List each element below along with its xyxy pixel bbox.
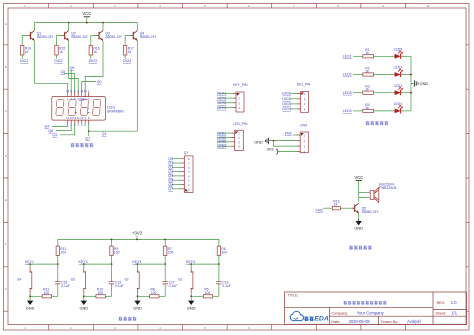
svg-text:2: 2 (304, 139, 306, 143)
svg-text:GND: GND (133, 305, 142, 310)
junction (111, 263, 113, 265)
wire FM2 to CN4 pin1 (293, 134, 297, 136)
title text (343, 301, 347, 304)
buzzer BUZZER1 (370, 183, 396, 203)
display digit 1 (56, 99, 64, 115)
wire LED2 to pin2 (217, 137, 231, 139)
svg-text:1: 1 (188, 187, 190, 191)
wire Q2 emitter to display pin4 (69, 41, 79, 93)
svg-text:EDA: EDA (314, 316, 328, 323)
resistor R15 (55, 45, 66, 55)
svg-text:Your Company: Your Company (357, 311, 385, 316)
svg-text:Q7: Q7 (168, 187, 173, 191)
svg-text:2: 2 (304, 97, 306, 101)
wire stub below junction (88, 131, 90, 136)
diode LED2 (394, 66, 403, 78)
header DIG_PIN pin dots (298, 93, 299, 110)
svg-text:5: 5 (204, 326, 206, 330)
svg-text:8: 8 (74, 89, 76, 93)
wire LED bus vertical (410, 56, 412, 111)
header LED_PIN pin dots (232, 133, 233, 147)
wire Q7 header row 2 (172, 162, 182, 164)
junction (273, 140, 275, 142)
switch S3 (71, 268, 86, 294)
wire cap to bottom (164, 284, 166, 296)
svg-text:LED2: LED2 (343, 73, 352, 77)
wire down to switch (83, 264, 85, 268)
svg-text:LED5: LED5 (394, 47, 403, 51)
power 3V3 at CN4 (267, 146, 278, 154)
svg-text:Date:: Date: (331, 320, 340, 324)
wire R15 to net (56, 55, 58, 59)
transistor Q1 (28, 31, 35, 41)
wire Q7 header row 5 (172, 175, 182, 177)
svg-text:4: 4 (77, 123, 79, 127)
svg-text:2: 2 (70, 326, 72, 330)
wire R9 to junction (111, 256, 113, 265)
wire DIG3 to pin3 (290, 103, 298, 105)
resistor R16 (89, 45, 100, 55)
wire DIG1 to pin1 (290, 92, 298, 94)
junction (86, 22, 88, 24)
header LED_PIN (233, 122, 248, 150)
wire emitter to GND (358, 213, 360, 219)
wire bus to GND (411, 83, 414, 85)
svg-text:4: 4 (304, 150, 306, 154)
ground GND S4 column (26, 301, 35, 311)
wire Q7 header row 4 (172, 171, 182, 173)
wire LED2 to bus (401, 74, 411, 76)
ground GND S1 column (187, 301, 196, 311)
junction (190, 263, 192, 265)
header CN4 pin dots (297, 135, 298, 153)
svg-text:LED4: LED4 (217, 145, 226, 149)
svg-text:2: 2 (188, 183, 190, 187)
wire R4 to LED4 (374, 110, 396, 112)
svg-text:100: 100 (97, 291, 103, 295)
wire LED1 to R1 (353, 55, 363, 57)
svg-text:Q5: Q5 (70, 66, 75, 70)
header CN4 (300, 124, 308, 154)
diode LED4 (394, 102, 403, 114)
svg-text:LED3: LED3 (394, 84, 403, 88)
wire junction down to cap (218, 264, 220, 282)
wire 3V3 stem (136, 236, 138, 240)
power +3V3 (132, 230, 143, 235)
transistor Q3 (96, 31, 103, 41)
svg-text:CN4: CN4 (300, 124, 307, 128)
svg-text:1.0: 1.0 (451, 300, 457, 305)
svg-text:7: 7 (88, 97, 90, 101)
header Q7 pin dots (182, 158, 183, 189)
svg-text:6: 6 (84, 97, 86, 101)
wire cap to bottom (111, 284, 113, 296)
wire R17 to net (124, 55, 126, 59)
svg-text:5: 5 (81, 123, 83, 127)
svg-text:C: C (5, 109, 7, 113)
svg-text:Company:: Company: (331, 312, 348, 316)
resistor R17 (123, 45, 134, 55)
svg-text:2: 2 (238, 97, 240, 101)
wire to buzzer pin1 (359, 192, 371, 194)
junction (102, 22, 104, 24)
svg-text:100: 100 (221, 251, 227, 255)
svg-text:8: 8 (188, 157, 190, 161)
svg-text:GND: GND (354, 226, 363, 231)
wire Q1 emitter to display pin1 (34, 41, 67, 93)
svg-text:LED4: LED4 (343, 109, 352, 113)
svg-text:10: 10 (427, 4, 430, 8)
header KEY_PIN pin dots (233, 93, 234, 108)
wire VCC stem (86, 17, 88, 23)
svg-text:DIG4: DIG4 (282, 107, 290, 111)
wire KEY1 to pin1 (219, 92, 233, 94)
resistor R6 (217, 246, 227, 255)
wire junction to CN4 pin3 (274, 141, 298, 147)
ground GND S3 column (79, 301, 88, 311)
power VCC top (82, 11, 91, 17)
svg-text:10: 10 (84, 89, 87, 93)
wire LED1 to pin1 (217, 132, 231, 134)
svg-text:REV:: REV: (437, 301, 445, 305)
svg-text:GND: GND (187, 305, 196, 310)
svg-text:3: 3 (114, 4, 116, 8)
svg-text:G: G (5, 287, 7, 291)
wire base Q2 (57, 36, 63, 46)
svg-text:TITLE:: TITLE: (288, 293, 299, 297)
svg-text:4: 4 (238, 145, 240, 149)
wire R2 to LED2 (374, 74, 396, 76)
junction (410, 92, 412, 94)
svg-text:1: 1 (24, 4, 26, 8)
display top pins (68, 92, 89, 96)
junction (164, 263, 166, 265)
header Q7 pin stubs (182, 159, 185, 189)
transistor Q4 (131, 31, 138, 41)
svg-text:1: 1 (304, 92, 306, 96)
svg-text:8: 8 (87, 107, 89, 111)
display bottom pin names (67, 123, 90, 127)
svg-text:1k: 1k (128, 50, 132, 54)
svg-text:100: 100 (205, 291, 211, 295)
svg-text:F: F (5, 242, 7, 246)
svg-text:6: 6 (248, 4, 250, 8)
header DIG_PIN (297, 83, 311, 113)
svg-text:VCC: VCC (82, 11, 91, 16)
svg-text:Sheet:: Sheet: (435, 312, 446, 316)
junction (83, 295, 85, 297)
svg-text:6: 6 (188, 166, 190, 170)
resistor R13 (332, 199, 340, 209)
wire collector Q1 (33, 23, 35, 31)
wire key row horizontal (81, 263, 112, 265)
ground GND at LED bus (414, 80, 428, 87)
header CN4 pin stubs (297, 135, 300, 152)
transistor Q5 (352, 203, 359, 213)
wire R7 to junction (164, 256, 166, 265)
svg-text:3: 3 (238, 101, 240, 105)
wire bottom row left (138, 295, 150, 297)
wire 3V3 rail (58, 238, 219, 240)
wire rail to R6 (218, 239, 220, 246)
svg-text:1k: 1k (365, 88, 369, 92)
caption buzzer circuit (349, 246, 353, 250)
svg-text:100: 100 (168, 251, 174, 255)
svg-text:KEY_PIN: KEY_PIN (233, 83, 248, 87)
svg-text:9: 9 (70, 89, 72, 93)
caption indicator LED circuit (366, 121, 370, 125)
svg-text:DIG1: DIG1 (20, 59, 28, 63)
wire bottom row right (213, 295, 219, 297)
switch S1 (178, 268, 193, 294)
wire Q7 header row 1 (172, 158, 182, 160)
svg-text:9: 9 (382, 4, 384, 8)
wire KEY4 to pin4 (219, 107, 233, 109)
power VCC buzzer (354, 175, 363, 180)
wire R16 to net (90, 55, 92, 59)
svg-text:DIG2: DIG2 (54, 59, 62, 63)
svg-text:1: 1 (238, 132, 240, 136)
wire down to switch (190, 264, 192, 268)
wire switch to bottom junction (190, 293, 192, 301)
wire LED4 to bus (401, 110, 411, 112)
svg-text:4: 4 (304, 107, 306, 111)
7-segment display LED1 body (52, 97, 106, 121)
wire KEY3 to pin3 (219, 102, 233, 104)
svg-text:S8050-J3Y: S8050-J3Y (71, 35, 89, 39)
svg-text:100: 100 (151, 291, 157, 295)
svg-text:GND: GND (26, 305, 35, 310)
wire net Q0 to display pin5 (82, 82, 96, 93)
svg-text:D: D (5, 154, 7, 158)
svg-text:DIG_PIN: DIG_PIN (297, 83, 311, 87)
junction (29, 263, 31, 265)
ground GND buzzer (354, 219, 363, 231)
capacitor C19 (109, 280, 124, 287)
svg-text:3: 3 (74, 97, 76, 101)
svg-text:KEY1: KEY1 (217, 92, 226, 96)
wire junction down to cap (164, 264, 166, 282)
svg-text:4: 4 (159, 4, 161, 8)
wire R14 to net (21, 55, 23, 59)
svg-text:DIG3: DIG3 (89, 59, 97, 63)
svg-text:LED1: LED1 (217, 131, 226, 135)
wire rail to R9 (111, 239, 113, 246)
svg-text:DIG4: DIG4 (123, 59, 131, 63)
svg-text:3: 3 (188, 179, 190, 183)
wire rail to R7 (164, 239, 166, 246)
header Q7 pin numbers (188, 157, 190, 191)
wire switch to bottom junction (83, 293, 85, 301)
wire net Q2 to display pin3 (64, 74, 75, 93)
wire junction down to cap (57, 264, 59, 282)
resistor R8 (150, 288, 159, 298)
wire Q4 emitter long run to display pin7 (89, 41, 138, 131)
svg-text:S8050-J3Y: S8050-J3Y (362, 210, 380, 214)
svg-text:FMB12A05: FMB12A05 (379, 186, 396, 190)
display digit 3 (80, 99, 88, 115)
caption digit display circuit (71, 143, 75, 147)
header Q7 (184, 151, 193, 192)
junction (410, 74, 412, 76)
capacitor C18 (55, 280, 70, 287)
wire R11 to junction (57, 256, 59, 265)
svg-text:1: 1 (24, 326, 26, 330)
svg-text:S1: S1 (178, 278, 182, 282)
svg-text:KEY3: KEY3 (217, 101, 226, 105)
wire display pin2 to net Q6 (56, 123, 71, 130)
wire base Q3 (91, 36, 97, 46)
svg-text:LED1: LED1 (343, 55, 352, 59)
diode LED3 (394, 84, 403, 96)
svg-text:9: 9 (84, 116, 86, 120)
wire LED3 to R3 (353, 92, 363, 94)
resistor R1 (363, 48, 374, 58)
wire GND to CN4 pin2 (269, 140, 298, 142)
svg-text:12: 12 (66, 89, 69, 93)
wire Q7 header row 3 (172, 166, 182, 168)
wire R1 to LED5 (374, 55, 396, 57)
svg-text:4: 4 (238, 106, 240, 110)
capacitor C17 (163, 280, 178, 287)
svg-text:LED3: LED3 (343, 91, 352, 95)
resistor R2 (363, 66, 374, 76)
resistor R12 (42, 288, 51, 298)
svg-text:6: 6 (84, 123, 86, 127)
wire LED4 to pin4 (217, 145, 231, 147)
svg-text:2: 2 (238, 136, 240, 140)
wire collector Q2 (68, 23, 70, 31)
svg-text:4: 4 (159, 326, 161, 330)
header KEY_PIN (233, 83, 248, 112)
wire display pin1 to net Q4 (52, 123, 68, 126)
junction (68, 22, 70, 24)
wire display pin3 to net Q3 (60, 123, 75, 134)
svg-text:E: E (5, 198, 7, 202)
wire down to switch (137, 264, 139, 268)
svg-text:8: 8 (337, 4, 339, 8)
wire key row horizontal (135, 263, 166, 265)
ground GND at CN4 (254, 138, 268, 145)
wire FM2 to R13 (323, 207, 332, 209)
wire bottom row left (84, 295, 96, 297)
svg-text:7: 7 (293, 4, 295, 8)
svg-text:10: 10 (80, 116, 83, 120)
wire cap to bottom (218, 284, 220, 296)
svg-text:6: 6 (77, 89, 79, 93)
svg-text:GND: GND (254, 139, 263, 144)
svg-text:1: 1 (67, 97, 69, 101)
header LED_PIN pin stubs (232, 133, 235, 146)
wire LED3 to pin3 (217, 141, 231, 143)
wire VCC rail (34, 22, 137, 24)
EasyEDA logo (290, 311, 329, 322)
svg-text:GRAN08IN: GRAN08IN (107, 109, 125, 113)
svg-text:S8050-J3Y: S8050-J3Y (140, 35, 158, 39)
svg-text:5: 5 (204, 4, 206, 8)
wire switch to bottom junction (29, 293, 31, 301)
resistor R3 (363, 85, 374, 95)
ground GND S2 column (133, 301, 142, 311)
svg-text:100: 100 (44, 291, 50, 295)
svg-text:1k: 1k (365, 69, 369, 73)
display top pin names (66, 89, 90, 93)
svg-text:2: 2 (70, 97, 72, 101)
svg-text:DIG3: DIG3 (282, 102, 290, 106)
wire rail to R11 (57, 239, 59, 246)
svg-text:7: 7 (188, 162, 190, 166)
svg-text:KEY4: KEY4 (217, 106, 226, 110)
svg-text:1k: 1k (334, 203, 338, 207)
svg-text:1k: 1k (93, 50, 97, 54)
wire DIG2 to pin2 (290, 98, 298, 100)
junction (164, 239, 166, 241)
svg-text:1k: 1k (25, 50, 29, 54)
wire KEY2 to pin2 (219, 97, 233, 99)
wire R3 to LED3 (374, 92, 396, 94)
svg-text:S8050-J3Y: S8050-J3Y (105, 35, 123, 39)
svg-text:3: 3 (304, 102, 306, 106)
resistor R5 (203, 288, 212, 298)
svg-text:GND: GND (420, 81, 429, 86)
junction (190, 295, 192, 297)
wire junction down to cap (111, 264, 113, 282)
svg-text:Q1: Q1 (102, 132, 107, 136)
wire Q3 emitter to display pin6 (85, 41, 103, 93)
svg-text:GND: GND (79, 305, 88, 310)
svg-text:S4: S4 (17, 278, 21, 282)
svg-text:1: 1 (304, 133, 306, 137)
svg-text:3: 3 (304, 144, 306, 148)
header KEY_PIN pin stubs (233, 93, 236, 107)
svg-text:A: A (5, 22, 7, 26)
wire bottom row right (105, 295, 111, 297)
junction (218, 263, 220, 265)
svg-text:+3V3: +3V3 (132, 230, 143, 235)
svg-text:Q0: Q0 (97, 80, 102, 84)
svg-text:100: 100 (114, 251, 120, 255)
svg-text:0.1uF: 0.1uF (115, 284, 124, 288)
resistor R4 (363, 103, 374, 113)
wire collector Q4 (136, 23, 138, 31)
resistor R11 (56, 246, 66, 255)
junction (136, 239, 138, 241)
wire LED3 to bus (401, 92, 411, 94)
wire LED5 to bus (401, 55, 411, 57)
svg-text:Drawn By:: Drawn By: (381, 320, 398, 324)
wire down to switch (29, 264, 31, 268)
junction (83, 263, 85, 265)
wire base Q4 (125, 36, 131, 46)
svg-text:FM2: FM2 (285, 131, 292, 135)
wire net Q5 to display pin2 (70, 70, 72, 93)
wire R13 to base (340, 207, 352, 209)
junction (137, 263, 139, 265)
svg-text:6: 6 (248, 326, 250, 330)
svg-text:3V3: 3V3 (267, 146, 274, 151)
svg-text:Q7: Q7 (85, 136, 90, 140)
svg-text:DIG2: DIG2 (282, 97, 290, 101)
switch S4 (17, 268, 32, 294)
svg-text:DIG1: DIG1 (282, 92, 290, 96)
svg-text:B: B (5, 65, 7, 69)
wire key row horizontal (188, 263, 219, 265)
display digit 2 (68, 99, 76, 115)
junction (137, 295, 139, 297)
svg-text:LED3: LED3 (217, 140, 226, 144)
wire to buzzer pin2 (359, 196, 371, 198)
wire LED4 to R4 (353, 110, 363, 112)
